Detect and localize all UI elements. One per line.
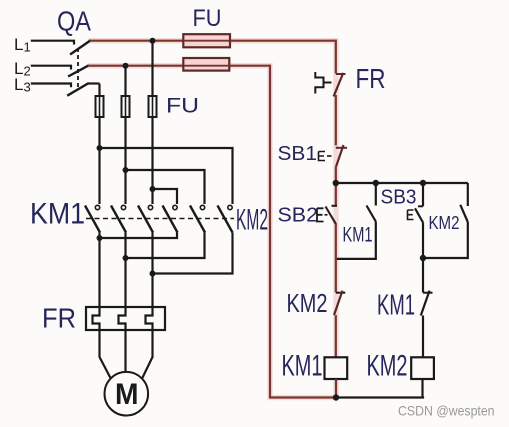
interlock dashed line KM1-KM2 xyxy=(86,218,234,220)
switch QA pole 1 blade xyxy=(70,40,91,54)
wire KM2 aux loop xyxy=(423,222,468,258)
svg-text:3: 3 xyxy=(24,80,31,95)
svg-text:KM2: KM2 xyxy=(287,288,328,318)
node phase1 to KM2 tap xyxy=(97,145,103,151)
fuse FU main 1 xyxy=(96,96,104,117)
contact KM2 NC interlock xyxy=(334,291,345,316)
wire L1 to fuse (red) xyxy=(90,40,184,42)
node KM2 aux rejoin xyxy=(420,255,426,261)
label L3 xyxy=(14,75,31,95)
wire bottom rail right xyxy=(336,396,424,398)
wire coil KM2 to bottom rail xyxy=(421,379,423,398)
svg-text:QA: QA xyxy=(57,5,91,36)
wire KM2 pole1 output join xyxy=(100,233,178,239)
wire FR to SB1 (red) xyxy=(335,95,337,145)
FR heater element 1 xyxy=(93,307,100,330)
wire SB1 to rail node (red) xyxy=(335,167,337,206)
wire L3 input xyxy=(31,84,71,88)
fuse FU main 3 xyxy=(149,96,157,117)
wire motor lead 3 xyxy=(142,330,152,378)
switch QA pole 2 blade xyxy=(68,65,89,76)
node control rail left xyxy=(333,180,339,186)
node bottom rail xyxy=(333,394,339,400)
contact KM1 aux NO xyxy=(367,206,376,222)
svg-text:FU: FU xyxy=(193,5,222,32)
wire phase 2 down to KM1 xyxy=(124,117,126,204)
wire KM1 pole2 output xyxy=(124,233,126,308)
contactor KM2 pole 3 xyxy=(218,205,233,232)
wire phase1 to KM2 contact3 xyxy=(100,148,233,204)
fuse FU line2 xyxy=(183,58,229,71)
switch QA pole 3 blade xyxy=(67,83,89,96)
fuse FU line1 xyxy=(183,34,230,47)
wire KM2 pole3 output join xyxy=(153,233,233,274)
svg-text:M: M xyxy=(115,378,139,411)
wire left rail down (red) xyxy=(269,65,271,398)
wire control left rail top (red) xyxy=(335,40,337,74)
wire phase drop 1 xyxy=(98,84,100,97)
coil KM2 xyxy=(411,357,434,379)
wire KM1 pole3 output xyxy=(151,233,153,308)
wire phase2 to KM2 contact2 xyxy=(126,170,205,204)
wire phase 3 down to KM1 xyxy=(151,117,153,204)
svg-text:KM2: KM2 xyxy=(429,213,460,233)
svg-text:KM1: KM1 xyxy=(377,289,415,321)
node motor phase U join xyxy=(97,235,103,241)
svg-text:SB2: SB2 xyxy=(278,204,319,226)
label L2 xyxy=(14,59,31,79)
svg-text:KM1: KM1 xyxy=(343,223,373,246)
svg-text:KM1: KM1 xyxy=(30,198,85,231)
contactor KM2 pole 2 xyxy=(190,205,205,232)
pushbutton SB1 NC xyxy=(319,145,348,167)
svg-text:FR: FR xyxy=(42,303,76,334)
wire KM2 NC to coil KM1 (red) xyxy=(335,315,337,357)
node phase2 to KM2 tap xyxy=(123,167,129,173)
svg-text:L: L xyxy=(14,75,23,94)
pushbutton SB2 NO xyxy=(317,206,337,224)
wire phase 1 down to KM1 xyxy=(98,117,100,204)
label L1 xyxy=(14,35,31,55)
wire SB3 to KM1 NC xyxy=(422,223,424,293)
svg-text:KM1: KM1 xyxy=(282,350,323,383)
node phase3 to KM2 tap xyxy=(150,186,156,192)
svg-text:FU: FU xyxy=(166,95,199,118)
wire L1 input xyxy=(31,41,74,45)
contact KM2 aux NO xyxy=(460,205,468,222)
wire KM1 pole1 output xyxy=(98,233,100,308)
node tap phase A on L1 xyxy=(150,38,156,44)
svg-text:SB1: SB1 xyxy=(278,143,318,165)
svg-text:FR: FR xyxy=(356,63,386,94)
wire bottom rail left (red) xyxy=(269,396,336,398)
svg-text:KM2: KM2 xyxy=(367,350,408,383)
svg-text:CSDN @wespten: CSDN @wespten xyxy=(398,403,495,419)
wire control top rail xyxy=(336,182,468,184)
svg-text:SB3: SB3 xyxy=(381,186,417,208)
wire motor lead 2 xyxy=(124,330,126,372)
svg-text:KM2: KM2 xyxy=(236,204,268,237)
wire KM1 aux loop xyxy=(336,222,376,259)
wire fuse2 to left rail (red) xyxy=(229,65,270,67)
red wire halo glow xyxy=(88,41,336,398)
svg-text:1: 1 xyxy=(24,40,31,55)
wire fuse1 to control rail (red) xyxy=(230,40,336,42)
wire phase drop 3 xyxy=(151,41,153,96)
thermal contact FR NC xyxy=(315,72,345,96)
thermal overload FR box xyxy=(86,307,165,330)
node KM1 aux branch xyxy=(373,180,379,186)
contactor KM1 pole 1 xyxy=(85,205,100,232)
wire KM1 aux branch down xyxy=(375,183,377,206)
coil KM1 xyxy=(325,357,348,379)
node motor phase V join xyxy=(123,255,129,261)
FR heater element 2 xyxy=(119,307,126,330)
switch QA link dashed xyxy=(77,48,79,90)
svg-text:L: L xyxy=(14,35,23,54)
fuse FU main 2 xyxy=(122,96,130,117)
wire L3 to phase drop xyxy=(88,82,100,84)
wire SB2 to KM2 NC (red) xyxy=(335,224,337,292)
node SB3 branch xyxy=(420,180,426,186)
wire coil KM1 to bottom rail (red) xyxy=(335,379,337,398)
contact KM1 NC interlock xyxy=(421,291,433,316)
node tap phase B on L2 xyxy=(123,63,129,69)
pushbutton SB3 NO xyxy=(408,206,424,222)
contactor KM1 pole 2 xyxy=(111,205,126,232)
wire KM2 pole2 output join xyxy=(126,233,205,259)
wire phase drop 2 xyxy=(124,66,126,96)
wire SB3 branch down xyxy=(422,183,424,206)
FR heater element 3 xyxy=(146,307,153,330)
wire KM1 NC to coil KM2 xyxy=(422,316,424,358)
contactor KM1 pole 3 xyxy=(138,205,153,232)
node motor phase W join xyxy=(150,271,156,277)
wire L2 to fuse (red) xyxy=(88,65,184,67)
wire phase3 to KM2 contact1 xyxy=(153,189,178,204)
motor M xyxy=(105,372,149,416)
contactor KM2 pole 1 xyxy=(163,205,178,232)
wire rail to KM2 aux xyxy=(467,183,469,206)
wire motor lead 1 xyxy=(100,330,111,378)
svg-text:2: 2 xyxy=(24,64,31,79)
wire L2 input xyxy=(31,66,71,70)
